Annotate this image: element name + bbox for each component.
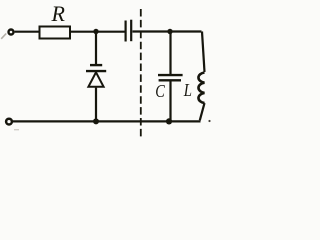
svg-text:R: R [51,1,66,26]
svg-text:L: L [183,80,192,101]
svg-text:C: C [155,80,166,101]
